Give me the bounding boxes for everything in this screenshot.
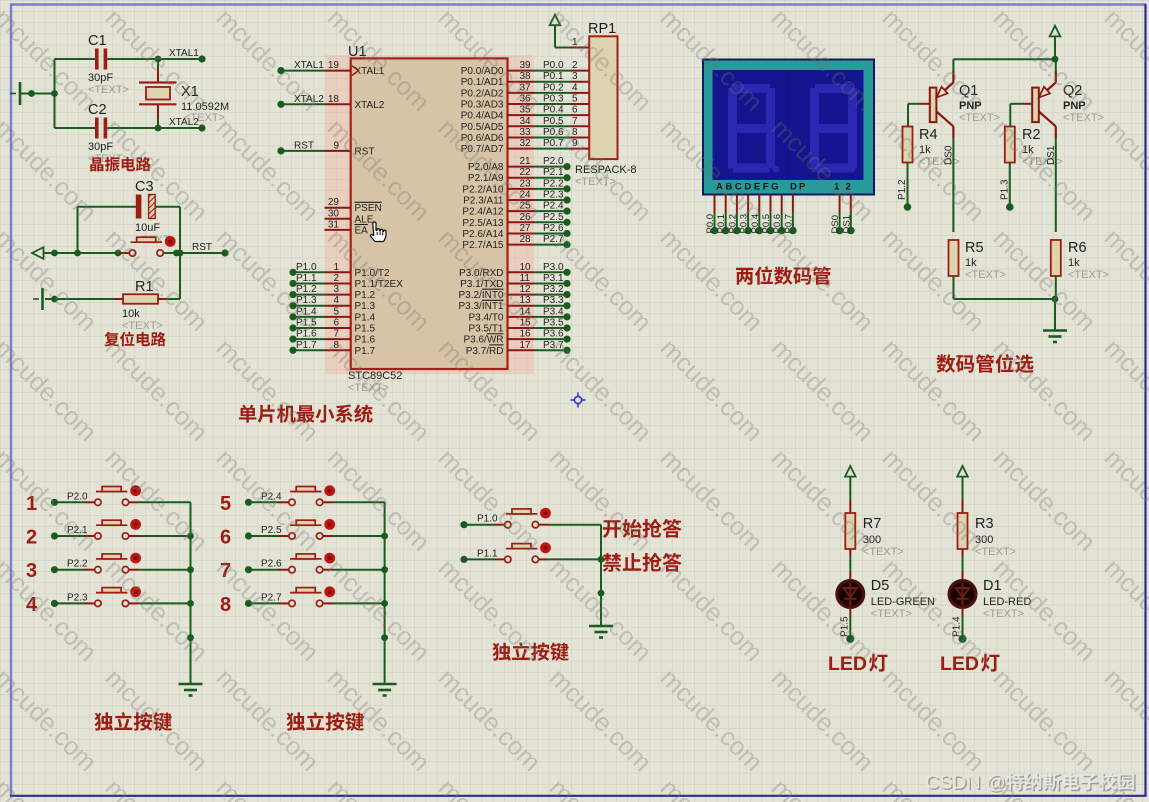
net label P0.6 + wire to RP1 pin 8 — [534, 127, 589, 138]
svg-text:5: 5 — [333, 306, 339, 317]
power terminal (left of R1) — [33, 288, 43, 310]
net label P2.0 terminal + wire — [534, 156, 571, 170]
svg-text:P3.3: P3.3 — [543, 295, 564, 306]
svg-text:22: 22 — [520, 167, 532, 178]
U1 pin 32 (P0.7/AD7) — [461, 138, 534, 155]
display cell divider — [788, 70, 790, 180]
wire Q2 emitter to rail — [1055, 59, 1057, 71]
net label XTAL2 + wire to U1 pin 18 — [277, 94, 324, 108]
display pin P0.1 + wire + terminal — [716, 195, 729, 235]
svg-text:21: 21 — [520, 156, 532, 167]
svg-text:P1.5: P1.5 — [355, 324, 376, 335]
U1 pin 16 (P3.6/WR) — [463, 329, 534, 346]
U1 pin 25 (P2.4/A12) — [462, 201, 534, 218]
junction dot bus — [187, 566, 194, 573]
net label P2.1 terminal + wire — [534, 167, 571, 181]
U1 pin 35 (P0.4/AD4) — [461, 105, 534, 122]
power symbol above R7 — [845, 466, 856, 500]
U1 pin 29 (PSEN) — [325, 197, 351, 208]
wire vertical C1-C2 left branch — [54, 59, 56, 128]
svg-text:30: 30 — [328, 208, 340, 219]
svg-text:P3.4/T0: P3.4/T0 — [468, 312, 503, 323]
node XTAL1 (left) — [155, 48, 206, 63]
svg-text:P0.0: P0.0 — [705, 214, 716, 234]
net label P0.5 + wire to RP1 pin 7 — [534, 116, 589, 127]
svg-text:<TEXT>: <TEXT> — [959, 112, 1000, 124]
svg-text:P3.2: P3.2 — [543, 284, 564, 295]
section label 独立按键 (group 2) — [286, 712, 305, 730]
button P2.5 key actuator marker — [324, 519, 335, 530]
svg-text:R6: R6 — [1068, 240, 1087, 256]
U1 pin 4 (P1.3) — [325, 295, 376, 312]
LED D1 (LED-RED) — [949, 581, 976, 608]
net label P2.4 terminal + wire — [245, 491, 282, 506]
wire button P2.2 to bus — [139, 569, 191, 571]
power symbol above R3 — [957, 466, 968, 500]
wire power to C1/C2 branch — [20, 93, 55, 95]
resistor R7 — [845, 513, 855, 549]
svg-text:<TEXT>: <TEXT> — [871, 608, 912, 620]
svg-text:P2.5: P2.5 — [543, 212, 564, 223]
svg-text:4: 4 — [572, 82, 578, 93]
svg-text:P2.6: P2.6 — [261, 559, 282, 570]
XTAL1 clock chevron — [352, 66, 359, 76]
push button P2.6 key terminals — [279, 554, 334, 573]
net label P2.7 terminal + wire — [245, 592, 282, 607]
push button P1.1 key terminals — [494, 544, 549, 563]
U1 pin 26 (P2.5/A13) — [462, 212, 534, 229]
junction dot bus lower — [381, 634, 388, 641]
U1 inside label XTAL1 — [355, 66, 385, 77]
display pin P0.6 + wire + terminal — [772, 195, 785, 235]
section label 单片机最小系统 — [239, 405, 257, 423]
svg-text:P0.3/AD3: P0.3/AD3 — [461, 100, 504, 111]
svg-text:P0.2: P0.2 — [727, 214, 738, 234]
svg-text:10k: 10k — [122, 308, 140, 320]
net label P2.0 terminal + wire — [51, 491, 88, 506]
U1 pin 34 (P0.5/AD5) — [461, 116, 534, 133]
svg-text:P2.6/A14: P2.6/A14 — [462, 229, 504, 240]
display pin P0.2 + wire + terminal — [727, 195, 740, 235]
U1 pin 9 (RST) — [325, 140, 351, 151]
svg-text:P3.4: P3.4 — [543, 306, 564, 317]
svg-text:P1.6: P1.6 — [355, 335, 376, 346]
svg-text:RST: RST — [192, 242, 212, 253]
section label 数码管位选 — [936, 354, 955, 373]
U1 inside label XTAL2 — [355, 100, 385, 111]
svg-text:P3.6/WR: P3.6/WR — [463, 335, 503, 346]
U1 pin 38 (P0.1/AD1) — [461, 71, 534, 88]
display pin DS1 + wire + terminal — [841, 195, 854, 235]
svg-text:P1.3: P1.3 — [355, 301, 376, 312]
power terminal (left of C1/C2) — [10, 82, 20, 105]
ground (transistor section) — [1043, 331, 1067, 343]
U1 pin 14 (P3.4/T0) — [468, 306, 534, 323]
section label 禁止抢答 — [603, 553, 622, 572]
resistor pack RP1 body — [589, 36, 617, 159]
power symbol above RP1 — [550, 15, 561, 48]
net label P1.0 terminal + wire — [460, 514, 498, 529]
svg-text:1k: 1k — [965, 257, 977, 269]
display pin P0.5 + wire + terminal — [761, 195, 774, 235]
wire button P2.0 to bus — [139, 501, 191, 503]
display pin P0.7 + wire + terminal — [783, 195, 796, 235]
svg-text:P1.7: P1.7 — [296, 340, 317, 351]
button P2.3 key actuator marker — [130, 586, 141, 597]
U1 inside label ALE — [355, 214, 374, 225]
U1 pin 23 (P2.2/A10) — [462, 178, 534, 195]
op-amp U1 body (STC89C52 MCU) — [351, 58, 508, 369]
svg-text:P2.2: P2.2 — [543, 178, 564, 189]
wire R4 to P1.2 terminal — [897, 163, 911, 211]
junction dot middle bus — [598, 556, 605, 563]
ground (button group at x=190.5) — [179, 684, 203, 696]
U1 pin 27 (P2.6/A14) — [462, 223, 534, 240]
U1 pin 24 (P2.3/A11) — [463, 190, 534, 207]
push button P2.2 key terminals — [84, 554, 138, 573]
push button RESET terminals — [119, 237, 174, 256]
capacitor C1 — [55, 49, 159, 70]
U1 pin 19 (XTAL1) — [325, 60, 351, 71]
push button P2.4 key terminals — [279, 487, 334, 506]
svg-text:5: 5 — [572, 94, 578, 105]
svg-text:P0.2: P0.2 — [543, 82, 564, 93]
push button P1.0 key terminals — [494, 509, 549, 528]
button P2.1 key actuator marker — [130, 519, 141, 530]
net label P0.3 + wire to RP1 pin 5 — [534, 94, 589, 105]
net label P1.2 terminal + wire — [289, 284, 324, 298]
capacitor C2 — [55, 118, 159, 139]
svg-text:ALE: ALE — [355, 214, 374, 225]
section label 两位数码管 — [736, 268, 753, 285]
U1 pin 8 (P1.7) — [325, 340, 376, 357]
svg-text:2: 2 — [333, 273, 339, 284]
wire Q1 emitter to rail — [952, 59, 954, 71]
svg-text:32: 32 — [520, 138, 532, 149]
net label P3.1 terminal + wire — [534, 273, 571, 287]
resistor R6 — [1051, 240, 1061, 276]
net label P1.4 terminal + wire — [289, 306, 324, 320]
svg-text:C1: C1 — [88, 33, 107, 49]
U1 pin 10 (P3.0/RXD) — [459, 262, 534, 279]
svg-text:<TEXT>: <TEXT> — [983, 608, 1024, 620]
junction dot bus — [381, 600, 388, 607]
svg-text:P1.1: P1.1 — [477, 548, 498, 559]
wire power to RP1 pin 1 — [555, 47, 589, 49]
net label P1.7 terminal + wire — [289, 340, 324, 354]
push button P2.1 key terminals — [84, 520, 138, 539]
svg-text:33: 33 — [520, 127, 532, 138]
junction dot bus lower — [187, 634, 194, 641]
svg-text:<TEXT>: <TEXT> — [1068, 269, 1109, 281]
resistor R5 — [949, 240, 959, 276]
two-digit 7-segment display body — [703, 60, 874, 195]
svg-text:39: 39 — [520, 60, 532, 71]
wire button P2.1 to bus — [139, 535, 191, 537]
svg-text:P0.0: P0.0 — [543, 60, 564, 71]
svg-text:P2.5/A13: P2.5/A13 — [462, 218, 504, 229]
net label P3.4 terminal + wire — [534, 306, 571, 320]
svg-text:19: 19 — [328, 60, 340, 71]
U1 pin 7 (P1.6) — [325, 329, 376, 346]
net label P2.2 terminal + wire — [534, 178, 571, 192]
push button P2.7 key terminals — [279, 588, 334, 607]
svg-text:34: 34 — [520, 116, 532, 127]
push button P2.0 key terminals — [84, 487, 138, 506]
svg-text:DS0: DS0 — [830, 215, 841, 233]
svg-text:P2.0: P2.0 — [543, 156, 564, 167]
U1 pin 3 (P1.2) — [325, 284, 376, 301]
display pin P0.0 + wire + terminal — [705, 195, 718, 235]
section label 开始抢答 — [603, 520, 621, 538]
junction dot bus — [381, 566, 388, 573]
wire button P1.1 to bus — [549, 558, 601, 560]
crystal X1 — [139, 59, 177, 128]
U1 pin 33 (P0.6/AD6) — [461, 127, 534, 144]
svg-text:P2.0: P2.0 — [67, 491, 88, 502]
U1 pin 21 (P2.0/A8) — [468, 156, 534, 173]
U1 pin 2 (P1.1/T2EX) — [325, 273, 404, 290]
wire R5 to ground rail — [953, 276, 955, 299]
svg-text:P0.5: P0.5 — [761, 214, 772, 234]
wire down to ground — [1054, 299, 1056, 330]
push button P2.5 key terminals — [279, 520, 334, 539]
display digit 1 segments — [728, 84, 780, 173]
transistor Q1 (PNP) — [930, 71, 954, 138]
net label P0.7 + wire to RP1 pin 9 — [534, 138, 589, 149]
net label P0.0 + wire to RP1 pin 2 — [534, 60, 589, 71]
U1 inside label EA — [355, 225, 369, 237]
U1 pin 15 (P3.5/T1) — [468, 318, 534, 335]
svg-text:P1.2: P1.2 — [897, 179, 908, 200]
svg-text:P1.3: P1.3 — [999, 179, 1010, 200]
U1 pin 18 (XTAL2) — [325, 94, 351, 105]
net label P0.4 + wire to RP1 pin 6 — [534, 105, 589, 116]
U1 pin 28 (P2.7/A15) — [462, 234, 534, 251]
display pin P0.4 + wire + terminal — [750, 195, 763, 235]
svg-text:P2.1: P2.1 — [543, 167, 564, 178]
wire button P2.4 to bus — [333, 501, 385, 503]
svg-text:6: 6 — [572, 105, 578, 116]
svg-text:P3.5/T1: P3.5/T1 — [468, 324, 503, 335]
transistor Q2 (PNP) — [1032, 71, 1056, 138]
wire C3 left branch down — [77, 207, 79, 253]
net DS1 wire (Q2 collector to R6) — [1046, 138, 1057, 232]
push button P2.3 key terminals — [84, 588, 138, 607]
svg-text:29: 29 — [328, 197, 340, 208]
net label P2.6 terminal + wire — [245, 559, 282, 574]
node XTAL2 (left) — [155, 117, 206, 132]
svg-text:<TEXT>: <TEXT> — [122, 320, 163, 332]
button P1.1 key actuator marker — [540, 542, 551, 553]
net label P2.3 terminal + wire — [534, 190, 571, 204]
U1 pin 31 (EA) — [325, 219, 351, 230]
mouse cursor — [370, 222, 386, 242]
wire R3 to D1 — [962, 549, 964, 580]
svg-text:P0.1: P0.1 — [716, 214, 727, 234]
svg-text:P3.5: P3.5 — [543, 318, 564, 329]
net label P2.5 terminal + wire — [245, 525, 282, 540]
wire D1 to P1.4 terminal — [952, 608, 967, 643]
wire button P2.6 to bus — [333, 569, 385, 571]
svg-text:R5: R5 — [965, 240, 984, 256]
wire reset row left — [44, 250, 130, 257]
button P1.0 key actuator marker — [540, 508, 551, 519]
svg-text:3: 3 — [333, 284, 339, 295]
svg-text:3: 3 — [572, 71, 578, 82]
net label P2.5 terminal + wire — [534, 212, 571, 226]
U1 pin 17 (P3.7/RD) — [466, 340, 534, 357]
svg-text:P0.1: P0.1 — [543, 71, 564, 82]
net label P0.1 + wire to RP1 pin 3 — [534, 71, 589, 82]
resistor R4 — [903, 127, 913, 163]
svg-text:2: 2 — [26, 527, 37, 549]
svg-text:P0.4: P0.4 — [543, 105, 564, 116]
svg-text:EA: EA — [355, 225, 369, 236]
wire button P1.0 to bus — [549, 524, 601, 526]
wire Q2 base to R2 — [1010, 104, 1032, 127]
LED D5 (LED-GREEN) — [837, 581, 864, 608]
svg-text:10uF: 10uF — [135, 222, 160, 234]
svg-text:P2.4/A12: P2.4/A12 — [462, 207, 504, 218]
section label 独立按键 (group 1) — [94, 712, 113, 730]
U1 pin 39 (P0.0/AD0) — [461, 60, 534, 77]
svg-text:6: 6 — [333, 318, 339, 329]
svg-text:P0.4/AD4: P0.4/AD4 — [461, 111, 504, 122]
U1 inside label RST — [355, 146, 375, 157]
net label P3.5 terminal + wire — [534, 318, 571, 332]
U1 selection highlight — [326, 55, 535, 374]
U1 pin 36 (P0.3/AD3) — [461, 94, 534, 111]
section label 晶振电路 — [90, 157, 103, 171]
svg-text:CSDN @: CSDN @ — [925, 772, 1005, 794]
wire R7 to D5 — [849, 549, 851, 580]
svg-text:P0.2/AD2: P0.2/AD2 — [461, 88, 504, 99]
origin marker (blue crosshair) — [571, 393, 586, 408]
button group bus wire — [190, 502, 192, 684]
button P2.7 key actuator marker — [324, 586, 335, 597]
net label P2.7 terminal + wire — [534, 234, 571, 248]
svg-text:18: 18 — [328, 94, 340, 105]
wire C3 right to R1 right vertical — [179, 253, 181, 299]
display pin P0.3 + wire + terminal — [739, 195, 752, 235]
wire power to R7 — [849, 500, 851, 513]
net label P1.1 terminal + wire — [460, 548, 498, 563]
button group bus wire — [384, 502, 386, 684]
net label P1.3 terminal + wire — [289, 295, 324, 309]
middle button bus wire — [600, 525, 602, 626]
wire reset row right + junction — [164, 249, 229, 256]
svg-text:8: 8 — [220, 594, 231, 616]
display pin DS0 + wire + terminal — [830, 195, 843, 235]
net label P0.2 + wire to RP1 pin 4 — [534, 82, 589, 93]
display digit 2 segments — [810, 84, 857, 173]
button P2.6 key actuator marker — [324, 553, 335, 564]
wire D5 to P1.5 terminal — [839, 608, 854, 643]
svg-text:P1.0: P1.0 — [296, 262, 317, 273]
section label 复位电路 — [104, 332, 119, 347]
svg-text:P1.1: P1.1 — [296, 273, 317, 284]
svg-text:XTAL1: XTAL1 — [294, 60, 324, 71]
wire C3 right branch down — [179, 207, 181, 253]
svg-text:30pF: 30pF — [88, 72, 113, 84]
svg-text:DP: DP — [790, 182, 808, 193]
net label RST + wire to U1 pin 9 — [277, 140, 324, 154]
net label P2.3 terminal + wire — [51, 592, 88, 607]
net label P2.4 terminal + wire — [534, 201, 571, 215]
net label P1.5 terminal + wire — [289, 318, 324, 332]
resistor R1 — [45, 294, 180, 304]
U1 pin 13 (P3.3/INT1) — [458, 295, 534, 312]
U1 inside label PSEN — [355, 202, 382, 214]
junction dot middle bus lower — [598, 590, 605, 597]
wire button P2.7 to bus — [333, 602, 385, 604]
svg-text:2: 2 — [572, 60, 578, 71]
U1 pin 12 (P3.2/INT0) — [458, 284, 534, 301]
junction dot power rail — [1052, 56, 1059, 63]
net DS0 wire (Q1 collector to R5) — [944, 138, 955, 232]
svg-text:P2.3: P2.3 — [67, 592, 88, 603]
svg-text:1: 1 — [333, 262, 339, 273]
wire button P2.5 to bus — [333, 535, 385, 537]
svg-text:XTAL2: XTAL2 — [355, 100, 385, 111]
junction dot bus — [187, 600, 194, 607]
U1 pin 37 (P0.2/AD2) — [461, 82, 534, 99]
svg-text:6: 6 — [220, 527, 231, 549]
ground (button group at x=384.6) — [373, 684, 397, 696]
svg-text:28: 28 — [520, 234, 532, 245]
net label P3.3 terminal + wire — [534, 295, 571, 309]
wire R2 to P1.3 terminal — [999, 163, 1013, 211]
button P2.0 key actuator marker — [130, 485, 141, 496]
junction dot bus — [381, 533, 388, 540]
junction dot bus — [187, 533, 194, 540]
svg-text:4: 4 — [333, 295, 339, 306]
net label P2.6 terminal + wire — [534, 223, 571, 237]
ground (middle buttons) — [589, 626, 613, 638]
svg-text:P3.1: P3.1 — [543, 273, 564, 284]
junction dot R1 left — [51, 296, 58, 303]
svg-text:17: 17 — [520, 340, 532, 351]
svg-text:RST: RST — [294, 140, 314, 151]
junction dots on power wire — [28, 90, 35, 97]
U1 pin 1 (P1.0/T2) — [325, 262, 390, 279]
svg-text:P1.4: P1.4 — [355, 312, 376, 323]
wire R6 to ground rail — [1055, 276, 1057, 299]
svg-text:PSEN: PSEN — [355, 203, 382, 214]
svg-text:<TEXT>: <TEXT> — [965, 269, 1006, 281]
net label P3.6 terminal + wire — [534, 329, 571, 343]
svg-text:1k: 1k — [1068, 257, 1080, 269]
svg-text:10: 10 — [520, 262, 532, 273]
svg-text:P0.3: P0.3 — [543, 94, 564, 105]
capacitor C3 (polarized) — [78, 195, 181, 219]
net label P1.1 terminal + wire — [289, 273, 324, 287]
U1 pin 30 (ALE) — [325, 208, 351, 219]
U1 pin 6 (P1.5) — [325, 318, 376, 335]
wire Q1 base to R4 — [908, 104, 930, 127]
resistor R3 — [958, 513, 968, 549]
U1 pin 11 (P3.1/TXD) — [460, 273, 534, 290]
CSDN watermark text — [925, 772, 1135, 795]
wire button P2.3 to bus — [139, 602, 191, 604]
svg-text:11: 11 — [520, 273, 531, 284]
output terminal arrow (reset net) — [32, 247, 44, 259]
emitter supply rail wire — [954, 58, 1056, 60]
section label 独立按键 (middle) — [492, 643, 511, 661]
button RESET actuator marker — [165, 236, 176, 247]
net label P1.0 terminal + wire — [289, 262, 324, 276]
